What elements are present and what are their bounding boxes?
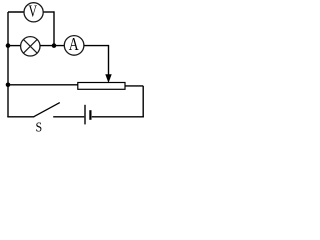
wire: node A to lamp xyxy=(8,45,21,47)
node B dot (lamp / ammeter / voltmeter junction) xyxy=(52,43,57,48)
ammeter U2 circle xyxy=(64,36,84,56)
node A dot (left rail / lamp row) xyxy=(6,43,11,48)
battery BT1 short thick plate xyxy=(89,110,91,120)
svg-text:A: A xyxy=(69,36,79,55)
wire: rheostat right end to right rail xyxy=(125,85,143,87)
wire: bottom right horizontal to battery xyxy=(92,116,144,118)
svg-text:V: V xyxy=(28,3,37,21)
wire: right vertical rail xyxy=(142,86,144,117)
wire: vertical drop from voltmeter corner to node B xyxy=(53,11,55,45)
lamp L1 circle xyxy=(21,37,40,56)
wire: battery left to switch right contact xyxy=(53,116,84,118)
wire: voltmeter right to corner xyxy=(43,11,54,13)
svg-text:S: S xyxy=(36,119,43,133)
wire: top left horizontal to voltmeter xyxy=(8,11,24,13)
switch S blade xyxy=(34,103,60,117)
rheostat R1 body xyxy=(78,83,125,90)
wire: left vertical rail xyxy=(7,12,9,117)
wire: lamp to node B xyxy=(40,45,64,47)
wire: vertical drop to rheostat slider xyxy=(108,45,110,76)
wire: node C to rheostat left end xyxy=(8,84,78,86)
wire: bottom left horizontal to switch xyxy=(7,116,34,118)
lamp L1 cross xyxy=(23,39,37,53)
wire: ammeter right to corner xyxy=(84,45,109,47)
voltmeter U1 circle xyxy=(24,3,43,22)
battery BT1 long plate xyxy=(84,105,86,125)
node C dot (left rail / rheostat row) xyxy=(6,83,11,88)
rheostat slider arrowhead xyxy=(105,74,111,83)
